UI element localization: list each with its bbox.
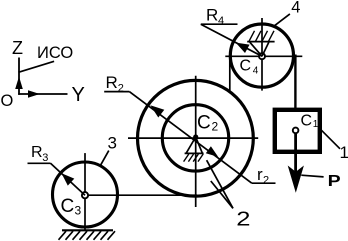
- pulley 2 horizontal centerline: [128, 137, 258, 139]
- svg-text:4: 4: [253, 66, 259, 77]
- support of C4: ceiling line: [247, 41, 274, 43]
- Z axis arrowhead: [15, 77, 23, 90]
- R2/r2 diameter leader line: [129, 92, 252, 184]
- leader line to label 3: [100, 151, 109, 166]
- node C3 center circle: [82, 192, 88, 198]
- svg-text:Z: Z: [12, 38, 23, 58]
- pulley 4 vertical centerline: [261, 18, 263, 91]
- force P arrowhead: [288, 166, 304, 193]
- R4 arrowhead on rim: [236, 43, 250, 53]
- svg-text:3: 3: [42, 152, 48, 164]
- svg-text:C: C: [61, 196, 75, 217]
- pulley 2 vertical centerline: [195, 76, 197, 207]
- svg-text:ИСО: ИСО: [37, 44, 73, 62]
- svg-text:1: 1: [313, 119, 319, 130]
- support of C4: right leg: [262, 42, 269, 56]
- svg-text:C: C: [197, 112, 211, 133]
- ground line under pulley 3: [62, 229, 113, 231]
- R3 arrowhead on rim: [62, 173, 75, 185]
- svg-text:R: R: [106, 73, 118, 92]
- Z axis line: [18, 58, 20, 95]
- leader lines to label 2: [207, 160, 233, 208]
- svg-text:R: R: [31, 144, 43, 161]
- belt line from pulley 4 down to pulley 2: [229, 56, 231, 92]
- force P line: [294, 133, 297, 173]
- R2 underline: [104, 91, 129, 93]
- R4 radius line: [201, 24, 262, 56]
- support of C2: right leg: [196, 137, 203, 153]
- svg-text:1: 1: [340, 143, 348, 162]
- svg-text:Y: Y: [72, 84, 85, 106]
- R4 underline: [201, 23, 238, 25]
- R3 underline: [28, 162, 51, 164]
- leader line to label 1: [321, 130, 340, 149]
- svg-text:2: 2: [236, 207, 250, 230]
- node C2 center dot: [193, 134, 198, 139]
- svg-text:4: 4: [218, 15, 224, 27]
- svg-text:C: C: [240, 58, 252, 75]
- R3 radius line: [51, 163, 86, 195]
- pulley 4 circle: [230, 24, 293, 87]
- leader line to label P: [301, 175, 323, 177]
- R2 arrowhead on outer rim: [150, 105, 164, 117]
- r2 arrowhead on inner rim: [206, 146, 218, 157]
- pulley 4 horizontal centerline: [225, 55, 302, 57]
- svg-text:C: C: [301, 113, 313, 130]
- support of C2: hatching: [184, 154, 204, 162]
- svg-text:2: 2: [263, 175, 269, 187]
- r2 underline: [252, 182, 276, 184]
- pulley 2 outer circle: [138, 80, 254, 196]
- svg-text:3: 3: [108, 134, 117, 153]
- rope from pulley 4 to load 1: [294, 55, 296, 112]
- Y axis arrowhead: [28, 90, 40, 97]
- pulley 3 circle: [53, 162, 118, 227]
- support of C4: left leg: [250, 42, 262, 56]
- pulley 3 vertical centerline: [84, 153, 86, 230]
- node C4 center circle: [259, 53, 265, 59]
- svg-text:R: R: [206, 6, 218, 25]
- leader line to label 4: [274, 14, 290, 26]
- node C1 center circle: [293, 128, 299, 134]
- svg-text:O: O: [1, 92, 14, 110]
- svg-text:3: 3: [75, 204, 82, 218]
- svg-text:2: 2: [118, 83, 124, 95]
- leader line from ИСО to Z axis: [18, 61, 54, 72]
- Y axis line: [18, 93, 67, 95]
- svg-text:2: 2: [212, 120, 219, 134]
- svg-text:P: P: [328, 172, 341, 190]
- ground hatching under pulley 3: [59, 231, 116, 240]
- load block 1: [275, 110, 320, 152]
- support of C2: left leg: [186, 137, 195, 153]
- support of C2: base line: [185, 152, 204, 154]
- svg-text:4: 4: [291, 0, 300, 17]
- support of C4: hatching: [249, 31, 274, 42]
- belt line from C3 to pulley 2: [85, 194, 197, 196]
- pulley 2 inner circle: [162, 105, 228, 171]
